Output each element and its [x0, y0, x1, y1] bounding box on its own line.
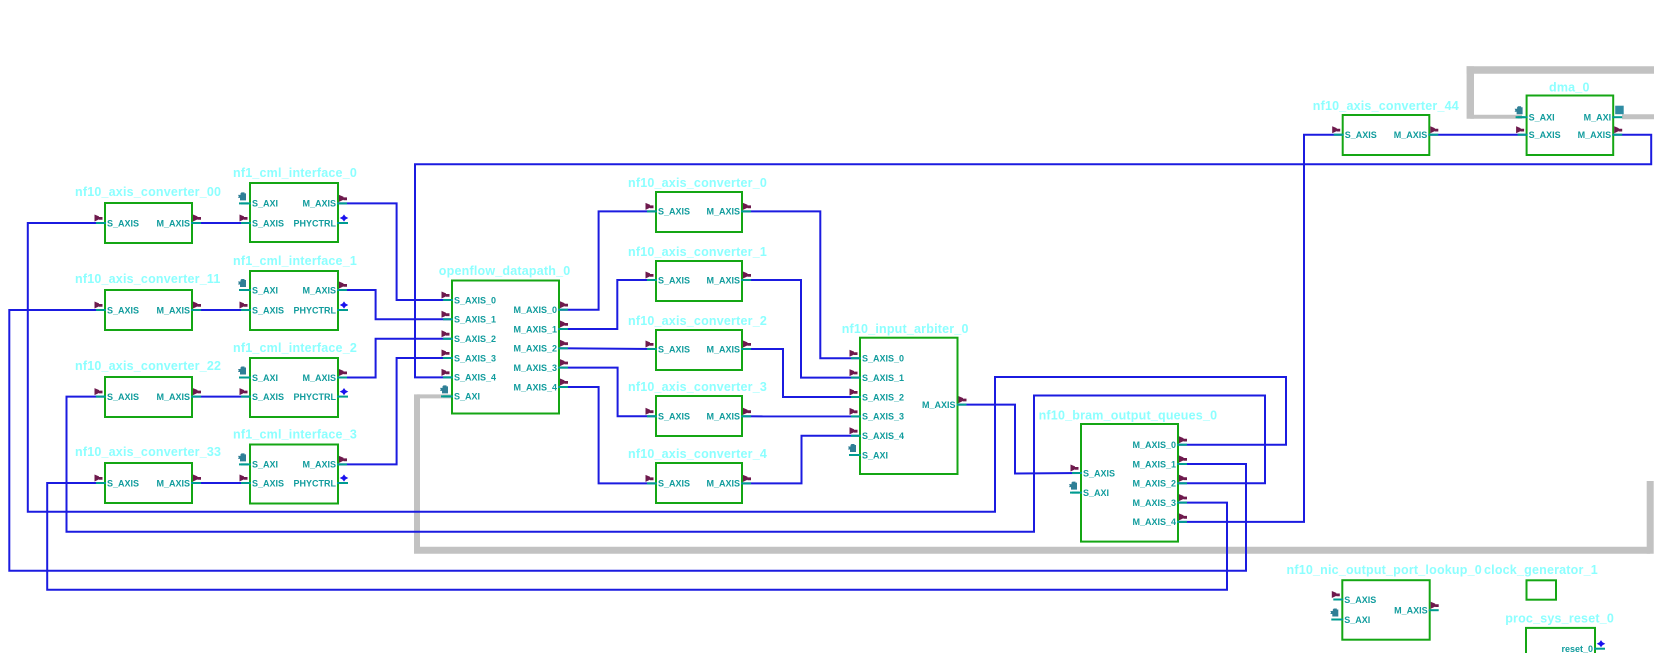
svg-text:S_AXIS: S_AXIS — [107, 305, 139, 315]
svg-text:nf10_bram_output_queues_0: nf10_bram_output_queues_0 — [1039, 409, 1218, 423]
svg-text:S_AXIS: S_AXIS — [252, 305, 284, 315]
svg-text:M_AXIS_3: M_AXIS_3 — [513, 363, 557, 373]
svg-text:M_AXIS_2: M_AXIS_2 — [513, 344, 557, 354]
svg-text:S_AXIS: S_AXIS — [658, 479, 690, 489]
svg-text:S_AXI: S_AXI — [252, 460, 278, 470]
svg-text:dma_0: dma_0 — [1549, 81, 1590, 95]
svg-text:PHYCTRL: PHYCTRL — [294, 478, 337, 488]
svg-text:M_AXIS: M_AXIS — [706, 275, 740, 285]
svg-text:S_AXIS_1: S_AXIS_1 — [862, 373, 904, 383]
svg-text:nf10_axis_converter_33: nf10_axis_converter_33 — [75, 445, 221, 459]
svg-text:S_AXIS: S_AXIS — [107, 218, 139, 228]
svg-text:M_AXIS: M_AXIS — [156, 392, 190, 402]
svg-text:M_AXIS: M_AXIS — [922, 400, 956, 410]
svg-text:nf1_cml_interface_3: nf1_cml_interface_3 — [233, 427, 357, 441]
svg-text:S_AXI: S_AXI — [1344, 615, 1370, 625]
svg-text:S_AXIS: S_AXIS — [252, 478, 284, 488]
svg-text:S_AXI: S_AXI — [252, 285, 278, 295]
svg-text:S_AXIS: S_AXIS — [658, 207, 690, 217]
svg-text:S_AXIS_2: S_AXIS_2 — [862, 392, 904, 402]
svg-text:M_AXIS: M_AXIS — [1394, 130, 1428, 140]
svg-text:M_AXIS: M_AXIS — [302, 199, 336, 209]
svg-text:M_AXI: M_AXI — [1584, 113, 1612, 123]
svg-text:M_AXIS_1: M_AXIS_1 — [513, 324, 557, 334]
svg-text:nf10_axis_converter_2: nf10_axis_converter_2 — [628, 314, 767, 328]
svg-text:nf10_axis_converter_00: nf10_axis_converter_00 — [75, 185, 221, 199]
svg-text:PHYCTRL: PHYCTRL — [294, 305, 337, 315]
svg-text:S_AXIS: S_AXIS — [1529, 130, 1561, 140]
svg-text:S_AXI: S_AXI — [252, 373, 278, 383]
svg-text:PHYCTRL: PHYCTRL — [294, 392, 337, 402]
svg-text:S_AXIS_4: S_AXIS_4 — [454, 373, 496, 383]
svg-text:S_AXIS: S_AXIS — [658, 275, 690, 285]
svg-text:M_AXIS: M_AXIS — [156, 305, 190, 315]
svg-text:S_AXIS: S_AXIS — [252, 392, 284, 402]
svg-text:PHYCTRL: PHYCTRL — [294, 218, 337, 228]
svg-text:M_AXIS: M_AXIS — [302, 460, 336, 470]
svg-text:S_AXIS: S_AXIS — [107, 478, 139, 488]
svg-text:proc_sys_reset_0: proc_sys_reset_0 — [1505, 612, 1614, 626]
svg-text:M_AXIS: M_AXIS — [156, 478, 190, 488]
svg-text:nf10_axis_converter_44: nf10_axis_converter_44 — [1313, 99, 1459, 113]
svg-text:S_AXI: S_AXI — [862, 450, 888, 460]
svg-text:nf10_axis_converter_4: nf10_axis_converter_4 — [628, 447, 767, 461]
svg-text:clock_generator_1: clock_generator_1 — [1484, 563, 1598, 577]
svg-text:M_AXIS_3: M_AXIS_3 — [1132, 498, 1176, 508]
svg-text:M_AXIS: M_AXIS — [706, 479, 740, 489]
svg-text:S_AXIS_0: S_AXIS_0 — [454, 295, 496, 305]
svg-text:M_AXIS_1: M_AXIS_1 — [1132, 459, 1176, 469]
svg-text:nf10_nic_output_port_lookup_0: nf10_nic_output_port_lookup_0 — [1287, 563, 1482, 577]
svg-text:S_AXIS: S_AXIS — [107, 392, 139, 402]
svg-text:S_AXIS: S_AXIS — [658, 344, 690, 354]
svg-text:S_AXI: S_AXI — [454, 392, 480, 402]
svg-text:S_AXIS_4: S_AXIS_4 — [862, 431, 904, 441]
svg-text:nf10_axis_converter_22: nf10_axis_converter_22 — [75, 359, 221, 373]
svg-text:S_AXI: S_AXI — [1083, 488, 1109, 498]
svg-text:M_AXIS_0: M_AXIS_0 — [513, 305, 557, 315]
svg-text:M_AXIS: M_AXIS — [302, 373, 336, 383]
svg-text:M_AXIS: M_AXIS — [1578, 130, 1612, 140]
svg-text:S_AXI: S_AXI — [1529, 113, 1555, 123]
svg-text:S_AXIS: S_AXIS — [658, 412, 690, 422]
svg-text:M_AXIS_4: M_AXIS_4 — [1132, 517, 1176, 527]
svg-text:S_AXIS_1: S_AXIS_1 — [454, 315, 496, 325]
svg-text:reset_0: reset_0 — [1561, 644, 1593, 653]
svg-text:nf10_axis_converter_3: nf10_axis_converter_3 — [628, 380, 767, 394]
svg-text:S_AXIS_3: S_AXIS_3 — [454, 353, 496, 363]
svg-text:openflow_datapath_0: openflow_datapath_0 — [439, 264, 571, 278]
svg-text:nf10_axis_converter_1: nf10_axis_converter_1 — [628, 245, 767, 259]
svg-text:M_AXIS_0: M_AXIS_0 — [1132, 440, 1176, 450]
svg-text:nf1_cml_interface_2: nf1_cml_interface_2 — [233, 341, 357, 355]
svg-text:S_AXI: S_AXI — [252, 199, 278, 209]
svg-text:S_AXIS: S_AXIS — [252, 218, 284, 228]
svg-text:S_AXIS: S_AXIS — [1083, 468, 1115, 478]
svg-text:S_AXIS_0: S_AXIS_0 — [862, 354, 904, 364]
svg-text:M_AXIS: M_AXIS — [156, 218, 190, 228]
svg-text:M_AXIS: M_AXIS — [706, 344, 740, 354]
svg-text:M_AXIS: M_AXIS — [706, 412, 740, 422]
svg-text:S_AXIS: S_AXIS — [1345, 130, 1377, 140]
svg-text:S_AXIS_3: S_AXIS_3 — [862, 412, 904, 422]
svg-text:M_AXIS_4: M_AXIS_4 — [513, 382, 557, 392]
svg-text:M_AXIS: M_AXIS — [1394, 606, 1428, 616]
svg-text:M_AXIS: M_AXIS — [706, 207, 740, 217]
svg-text:nf1_cml_interface_1: nf1_cml_interface_1 — [233, 254, 357, 268]
svg-text:nf10_axis_converter_11: nf10_axis_converter_11 — [75, 272, 220, 286]
svg-text:M_AXIS_2: M_AXIS_2 — [1132, 479, 1176, 489]
svg-text:nf10_input_arbiter_0: nf10_input_arbiter_0 — [842, 322, 969, 336]
svg-text:M_AXIS: M_AXIS — [302, 285, 336, 295]
svg-text:nf10_axis_converter_0: nf10_axis_converter_0 — [628, 176, 767, 190]
svg-text:nf1_cml_interface_0: nf1_cml_interface_0 — [233, 166, 357, 180]
svg-text:S_AXIS: S_AXIS — [1344, 595, 1376, 605]
svg-text:S_AXIS_2: S_AXIS_2 — [454, 334, 496, 344]
